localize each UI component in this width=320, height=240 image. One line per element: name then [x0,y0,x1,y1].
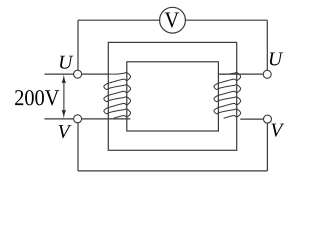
wire V right [240,118,263,120]
wire V right drop [266,123,268,171]
transformer core inner [127,62,219,131]
dimension arrow 200V shaft [63,80,65,113]
terminal U left [74,70,82,78]
node V left label [59,125,72,138]
voltmeter label V [165,13,179,28]
wire right riser [266,20,268,70]
node V right label [271,124,284,137]
wire top horizontal [78,19,267,21]
wire U left [44,73,108,75]
wire bottom horizontal [78,170,267,172]
dimension arrowheads [62,75,66,119]
wire V left drop [77,123,79,171]
terminal U right [263,70,271,78]
transformer core outer [108,42,236,150]
voltmeter V [160,7,186,33]
winding left [104,73,131,119]
wire V left [44,118,130,120]
node U left label [60,56,73,69]
label 200V [15,90,59,105]
terminal V right [264,115,272,123]
wire U right [219,73,264,75]
winding right [214,73,241,119]
terminal V left [74,115,82,123]
node U right label [270,52,283,65]
wire left riser [77,20,79,70]
